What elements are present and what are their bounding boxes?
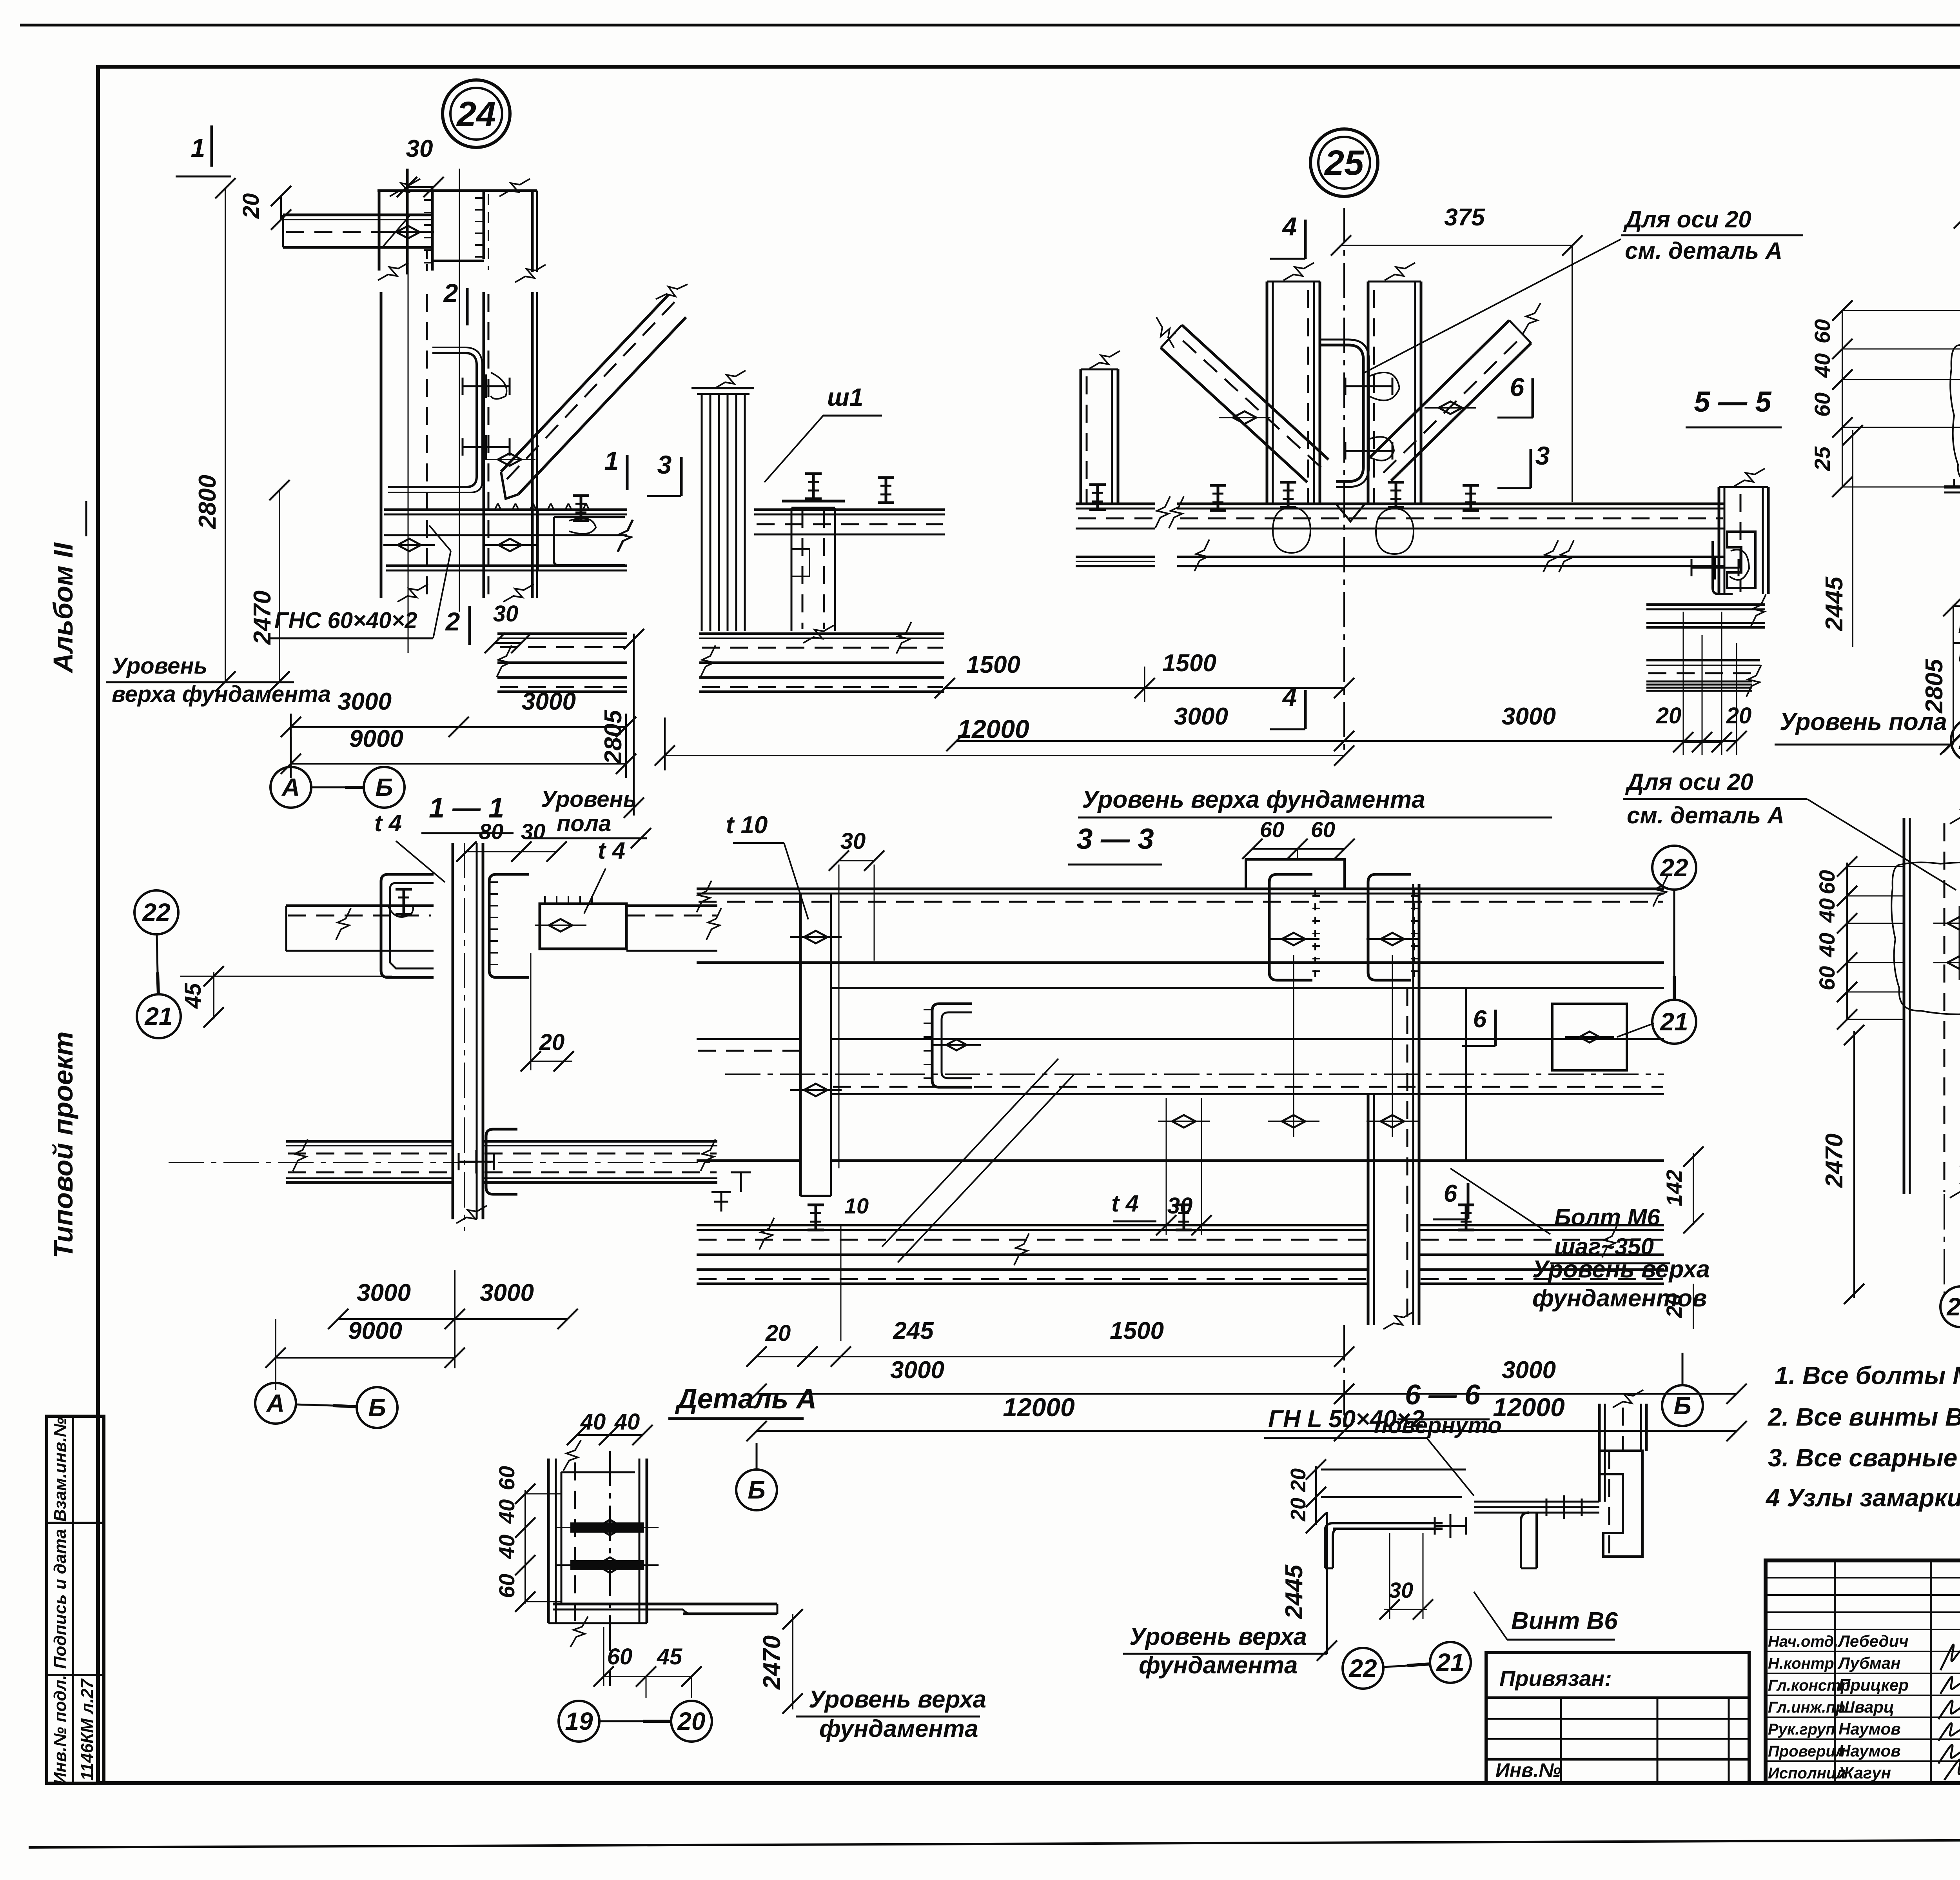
svg-text:40: 40 [1815, 898, 1839, 923]
svg-text:2805: 2805 [600, 710, 627, 765]
svg-text:3000: 3000 [890, 1357, 944, 1384]
section 5-5 column [1718, 487, 1720, 594]
svg-text:22: 22 [1958, 726, 1960, 754]
svg-text:4: 4 [1282, 682, 1297, 711]
svg-text:21: 21 [1660, 1008, 1688, 1036]
section 5-5 lower beams [1646, 659, 1760, 661]
svg-text:375: 375 [1444, 204, 1485, 231]
svg-text:Инв.№: Инв.№ [1495, 1759, 1561, 1781]
svg-text:3 — 3: 3 — 3 [1076, 823, 1154, 855]
svg-text:2470: 2470 [759, 1635, 786, 1690]
section 3-3 top beam [697, 888, 1664, 890]
svg-text:Подпись и дата: Подпись и дата [51, 1529, 70, 1669]
svg-text:60: 60 [607, 1644, 633, 1669]
svg-text:245: 245 [893, 1317, 934, 1344]
attachment table [1486, 1653, 1749, 1783]
svg-text:12000: 12000 [957, 714, 1029, 743]
svg-text:1500: 1500 [1110, 1317, 1164, 1344]
node 25 right diagonal brace [1369, 320, 1509, 458]
svg-text:Для оси 20: Для оси 20 [1623, 206, 1751, 233]
svg-text:Болт М6: Болт М6 [1554, 1204, 1660, 1230]
svg-text:60: 60 [494, 1466, 519, 1490]
section 5-5 girt [1646, 603, 1765, 606]
section 2-2 revision cloud [1891, 862, 1960, 1014]
girt bolts [885, 478, 887, 503]
section 6-6 channel right [1599, 1451, 1642, 1557]
section 1-1 plate with bolt [540, 904, 626, 949]
svg-text:1500: 1500 [966, 651, 1020, 678]
section 1-1 axis circles A B [255, 1383, 296, 1424]
node 24 section mark 1 top [211, 125, 213, 167]
section 3-3 channel stub middle [932, 1004, 972, 1087]
section 6-6 column top [1598, 1404, 1601, 1502]
section 6-6 axis circles 22 21 [1343, 1648, 1383, 1689]
section 6-6 plates [1321, 1469, 1466, 1471]
svg-text:Уровень верха фундамента: Уровень верха фундамента [1082, 786, 1425, 813]
node24-25 lower girts [699, 632, 944, 635]
svg-text:Нач.отд.: Нач.отд. [1768, 1633, 1838, 1650]
title block signature table [1834, 1560, 1836, 1783]
detail A inner profile [561, 1471, 635, 1473]
node 24 girt weld ticks [495, 503, 498, 510]
section 4-4 dim lines left [1842, 311, 1843, 487]
sidebar stamp boxes [47, 1416, 104, 1783]
svg-text:22: 22 [1946, 1293, 1960, 1321]
svg-text:Прицкер: Прицкер [1838, 1676, 1909, 1694]
svg-text:ГНС 60×40×2: ГНС 60×40×2 [274, 608, 417, 633]
detail A axis circles 19 20 [559, 1701, 599, 1742]
svg-text:40: 40 [1810, 353, 1835, 378]
svg-text:1146КМ л.27: 1146КМ л.27 [78, 1678, 97, 1781]
svg-text:30: 30 [493, 601, 519, 627]
svg-text:20: 20 [1287, 1498, 1310, 1522]
svg-text:Шварц: Шварц [1838, 1698, 1894, 1716]
svg-text:3000: 3000 [1502, 1357, 1556, 1384]
svg-text:60: 60 [1260, 817, 1284, 842]
svg-text:30: 30 [521, 819, 545, 844]
svg-text:45: 45 [180, 983, 206, 1009]
svg-text:3: 3 [657, 450, 672, 479]
section 3-3 left plate [799, 894, 802, 1196]
svg-text:Уровень: Уровень [112, 653, 207, 679]
svg-text:Для оси 20: Для оси 20 [1625, 769, 1753, 795]
node 24 left beam [283, 214, 432, 216]
svg-text:2. Все винты В6 самонарезаю: 2. Все винты В6 самонарезающие. [1768, 1403, 1960, 1431]
svg-text:Привязан:: Привязан: [1499, 1666, 1612, 1691]
node 25 marker circle [1310, 129, 1378, 196]
svg-text:60: 60 [1311, 817, 1335, 842]
node 24 gusset channel on column [388, 353, 477, 487]
svg-text:Б: Б [1673, 1391, 1691, 1420]
svg-text:20: 20 [765, 1321, 791, 1346]
svg-text:3000: 3000 [357, 1279, 411, 1306]
svg-text:30: 30 [840, 828, 866, 854]
section 2-2 bolts on column [1947, 917, 1960, 930]
svg-text:19: 19 [565, 1707, 593, 1735]
middle column cap plate [782, 500, 845, 503]
svg-text:ГН L 50×40×2: ГН L 50×40×2 [1268, 1406, 1425, 1433]
svg-text:30: 30 [406, 135, 433, 162]
svg-text:22: 22 [1660, 854, 1688, 882]
svg-text:22: 22 [142, 898, 170, 926]
svg-text:6: 6 [1473, 1006, 1487, 1033]
svg-text:24: 24 [456, 95, 496, 134]
svg-text:Проверил: Проверил [1768, 1743, 1845, 1760]
svg-text:2: 2 [445, 607, 460, 636]
section 6-6 main joint [1474, 1502, 1599, 1513]
title block outer box [1766, 1560, 1960, 1783]
section 3-3 diag leader t4 [882, 1059, 1058, 1247]
section 3-3 axis circle B bottom left [736, 1469, 777, 1510]
svg-text:2805: 2805 [1921, 659, 1948, 714]
svg-text:9000: 9000 [349, 725, 403, 752]
section 5-5 axis circles 22 21 [1951, 718, 1960, 762]
svg-text:60: 60 [1810, 319, 1835, 343]
svg-text:Лубман: Лубман [1837, 1654, 1900, 1672]
node 25 bolts on girt [1217, 485, 1220, 510]
svg-text:А: А [281, 773, 300, 801]
svg-text:Уровень верха: Уровень верха [1129, 1623, 1307, 1650]
section 5-5 weld blob [1730, 550, 1749, 580]
svg-text:Исполнил: Исполнил [1768, 1765, 1846, 1782]
svg-text:22: 22 [1348, 1654, 1377, 1682]
section 2-2 column [1903, 818, 1906, 1194]
section 5-5 bolt [1691, 567, 1739, 569]
svg-text:3000: 3000 [1174, 703, 1228, 730]
svg-text:1. Все болты М12, кроме о: 1. Все болты М12, кроме оговоренных. [1775, 1361, 1960, 1390]
node 24 column splice [377, 189, 537, 192]
svg-text:Б: Б [375, 773, 393, 801]
section 3-3 main band upper line [831, 987, 1664, 989]
svg-text:6: 6 [1510, 372, 1525, 401]
section 3-3 axis circle B bottom [1662, 1385, 1703, 1426]
node 24 extension line 30 [408, 169, 409, 653]
node 25 weld blobs on channel [1369, 372, 1399, 400]
section 1-1 channel bracket on column [486, 1129, 517, 1194]
node 24 bracket with weld [554, 517, 625, 565]
svg-text:Наумов: Наумов [1838, 1742, 1901, 1760]
svg-text:шаг~350: шаг~350 [1958, 641, 1960, 668]
svg-text:4: 4 [1282, 212, 1297, 241]
svg-text:Н.контр: Н.контр [1768, 1655, 1834, 1672]
svg-text:60: 60 [1815, 870, 1839, 894]
svg-text:пола: пола [557, 811, 611, 836]
svg-text:верха фундамента: верха фундамента [112, 681, 331, 707]
svg-text:Винт В6: Винт В6 [1511, 1608, 1618, 1635]
svg-text:2: 2 [443, 278, 458, 307]
section 1-1 upper girt right [626, 905, 717, 907]
svg-text:20: 20 [1726, 703, 1752, 728]
svg-text:3: 3 [1535, 441, 1550, 470]
svg-text:Взам.инв.№: Взам.инв.№ [51, 1417, 70, 1522]
svg-text:t 4: t 4 [598, 837, 625, 864]
svg-text:Лебедич: Лебедич [1837, 1632, 1909, 1650]
svg-text:Уровень верха: Уровень верха [1532, 1256, 1710, 1283]
svg-text:Наумов: Наумов [1838, 1720, 1901, 1738]
svg-text:2445: 2445 [1281, 1564, 1308, 1619]
svg-text:3. Все сварные швы К: 3. Все сварные швы К [1768, 1444, 1960, 1472]
node 25 left diagonal brace [1161, 348, 1307, 482]
svg-text:Уровень: Уровень [541, 787, 637, 812]
svg-text:25: 25 [1810, 446, 1835, 471]
section 1-1 column [452, 843, 454, 1219]
title block signatures [1940, 1645, 1960, 1670]
svg-text:Деталь А: Деталь А [675, 1383, 817, 1415]
svg-text:2800: 2800 [194, 475, 221, 529]
svg-text:142: 142 [1662, 1170, 1686, 1206]
svg-text:40: 40 [494, 1535, 519, 1559]
svg-text:40: 40 [614, 1409, 640, 1435]
svg-text:6: 6 [1444, 1180, 1457, 1207]
detail A column bottom break [548, 1622, 647, 1624]
section 2-2 bottom centerline [1944, 1194, 1945, 1294]
svg-text:21: 21 [1436, 1648, 1464, 1677]
svg-text:45: 45 [657, 1644, 682, 1669]
section 1-1 middle beam [286, 1140, 453, 1143]
section 3-3 axis circles right 22 21 [1652, 846, 1696, 890]
svg-text:2445: 2445 [1821, 576, 1848, 631]
node 25 right column [1367, 282, 1370, 504]
svg-text:20: 20 [677, 1707, 705, 1735]
node 25 right end channel [1727, 532, 1755, 588]
svg-text:1: 1 [191, 133, 205, 162]
svg-text:21: 21 [144, 1002, 172, 1030]
node 25 weld blobs at column bases [1273, 507, 1310, 553]
node 24 column [380, 292, 383, 598]
svg-text:20: 20 [238, 193, 264, 219]
column sh1 bundle [701, 394, 703, 631]
svg-text:1500: 1500 [1162, 650, 1216, 677]
svg-text:2470: 2470 [1821, 1133, 1848, 1188]
section 1-1 right channel serrated [489, 874, 529, 977]
svg-text:Болт М6: Болт М6 [1958, 612, 1960, 638]
node 24 marker circle [443, 80, 510, 147]
section 3-3 central column [1367, 1094, 1370, 1325]
section 1-1 upper girt left [286, 905, 434, 907]
svg-text:60: 60 [1815, 966, 1839, 990]
svg-text:Уровень верха: Уровень верха [809, 1686, 986, 1713]
section 1-1 left channel [381, 874, 434, 977]
node 24 girt beams [384, 509, 627, 511]
svg-text:t 4: t 4 [374, 810, 402, 836]
svg-text:Б: Б [368, 1393, 386, 1422]
svg-text:25: 25 [1324, 143, 1365, 183]
node 25 girt left piece [1076, 503, 1155, 505]
section 4-4 revision cloud [1950, 343, 1960, 487]
detail A base plate [553, 1603, 777, 1606]
svg-text:40: 40 [580, 1409, 606, 1435]
svg-text:2470: 2470 [249, 590, 276, 645]
section 6-6 angle bracket [1333, 1523, 1443, 1529]
section 1-1 axis circles 22 21 left [134, 890, 178, 934]
section 2-2 axis circles 22 21 [1940, 1286, 1960, 1327]
node 25 far left column [1080, 369, 1082, 504]
detail A dims left 60 40 60 [524, 1490, 526, 1604]
svg-text:40: 40 [494, 1499, 519, 1524]
middle column dashed [791, 508, 793, 631]
svg-text:фундаментов: фундаментов [1532, 1285, 1707, 1312]
svg-text:9000: 9000 [348, 1317, 402, 1344]
svg-text:Инв.№ подл.: Инв.№ подл. [51, 1675, 70, 1785]
svg-text:20: 20 [1656, 703, 1682, 728]
svg-text:40: 40 [1815, 933, 1839, 957]
bottom outer border line [29, 1838, 1960, 1847]
svg-text:фундамента: фундамента [819, 1715, 978, 1742]
section 3-3 right sub frame [1466, 987, 1664, 989]
svg-text:3000: 3000 [480, 1279, 534, 1306]
section 3-3 centre assembly [1246, 859, 1345, 889]
svg-text:3000: 3000 [338, 688, 392, 715]
node 24 diagonal brace [501, 294, 669, 472]
section 3-3 mid band [697, 1038, 800, 1040]
svg-text:Гл.инж.пр: Гл.инж.пр [1768, 1699, 1845, 1716]
node 25 middle bent channel [1321, 345, 1363, 481]
svg-text:20: 20 [539, 1030, 565, 1055]
section 2-2 dims left 60 40 60 [1846, 863, 1848, 1019]
section 3-3 bolt symbols lower [815, 1205, 817, 1230]
node 24 lower girts to section 1-1 [497, 632, 627, 635]
svg-text:3000: 3000 [1502, 703, 1556, 730]
node 25 girt [1177, 503, 1724, 505]
svg-text:10: 10 [844, 1193, 869, 1218]
svg-text:12000: 12000 [1003, 1393, 1075, 1422]
svg-text:12000: 12000 [1493, 1393, 1565, 1422]
svg-text:фундамента: фундамента [1139, 1652, 1298, 1679]
svg-text:t 10: t 10 [726, 812, 768, 839]
node 24 axis circles A B [270, 767, 311, 808]
svg-text:Рук.груп: Рук.груп [1768, 1721, 1835, 1738]
svg-text:Гл.констр: Гл.констр [1768, 1677, 1850, 1694]
column sh1 girt connection [754, 509, 945, 511]
section 3-3 lower band [831, 1159, 1664, 1162]
svg-text:1: 1 [604, 446, 619, 475]
section 5-5 angle bracket [1713, 541, 1733, 594]
node 25 base weld v [1336, 504, 1365, 521]
svg-text:Типовой проект: Типовой проект [48, 1032, 78, 1259]
svg-text:ш1: ш1 [827, 383, 864, 411]
svg-text:30: 30 [1389, 1578, 1413, 1602]
node 25 left column [1266, 282, 1269, 504]
svg-text:4 Узлы замаркированы на ли: 4 Узлы замаркированы на листе 16. [1765, 1484, 1960, 1512]
section 3-3 girts lower [697, 1224, 1368, 1226]
svg-text:см. деталь А: см. деталь А [1625, 238, 1782, 264]
svg-text:Б: Б [748, 1476, 765, 1504]
sheet top outer line [20, 24, 1960, 27]
node 24 bolts on column [463, 385, 510, 387]
detail A column [547, 1459, 550, 1623]
svg-text:60: 60 [494, 1574, 519, 1598]
section 3-3 weld symbols left [711, 1192, 731, 1212]
svg-text:80: 80 [479, 819, 503, 844]
node 25 lower chord [1177, 556, 1724, 558]
svg-text:см. деталь А: см. деталь А [1627, 802, 1784, 828]
svg-text:Жагун: Жагун [1838, 1764, 1891, 1782]
detail A bolt bars [570, 1522, 644, 1533]
section 4-4 base plate with weld ticks [1944, 485, 1960, 489]
svg-text:t 4: t 4 [1111, 1190, 1139, 1217]
svg-text:60: 60 [1810, 392, 1835, 417]
svg-text:5 — 5: 5 — 5 [1694, 385, 1772, 418]
svg-text:Альбом II: Альбом II [48, 542, 78, 674]
svg-text:А: А [266, 1389, 285, 1417]
node 25 centerline [1343, 208, 1345, 757]
